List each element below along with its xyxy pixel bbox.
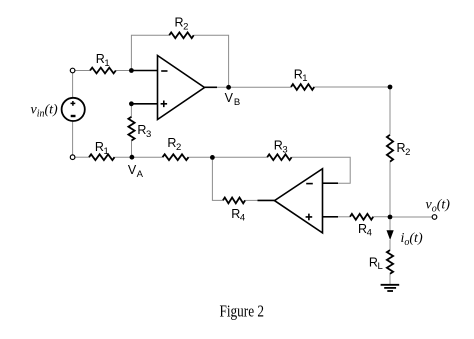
svg-text:2: 2 [183, 21, 188, 32]
wire junction down to R4 branch [212, 157, 223, 200]
svg-text:3: 3 [146, 129, 151, 140]
op-amp U1 output stub [205, 86, 218, 88]
svg-text:Figure 2: Figure 2 [220, 302, 265, 321]
svg-text:2: 2 [405, 147, 410, 158]
op-amp U2 output stub [258, 199, 275, 201]
wire R2 to output node [389, 162, 391, 217]
wire op1 output to VB node [216, 86, 291, 88]
svg-text:V: V [128, 163, 137, 177]
node dot VB [226, 85, 231, 90]
wire right node down to R2 [389, 87, 391, 135]
wire arrow to RL [389, 240, 391, 250]
svg-text:4: 4 [367, 228, 372, 239]
wire VB rail to right node [314, 86, 390, 88]
resistor R2 bottom [163, 154, 189, 160]
wire junction to R3 [212, 156, 267, 158]
resistor R1 top-left [90, 68, 116, 74]
op-amp U1 minus input stub [133, 70, 158, 72]
op-amp U2 plus sign [306, 214, 313, 221]
source plus sign [71, 101, 76, 106]
svg-text:vin(t): vin(t) [31, 103, 59, 120]
svg-text:1: 1 [104, 146, 109, 157]
resistor RL [387, 250, 393, 274]
wire RL to ground [389, 274, 391, 285]
resistor R3 bottom horizontal [267, 154, 291, 160]
resistor R4 left [223, 198, 245, 204]
resistor R3 vertical [128, 117, 134, 141]
terminal vo [432, 215, 437, 220]
resistor R1 bottom-left [89, 154, 115, 160]
terminal top-left [70, 68, 75, 73]
wire output node to vo terminal [390, 216, 432, 218]
svg-text:2: 2 [176, 142, 181, 153]
op-amp U1 triangle [158, 56, 205, 120]
svg-text:3: 3 [282, 144, 287, 155]
op-amp U2 minus input stub [323, 182, 339, 184]
svg-text:1: 1 [302, 73, 307, 84]
resistor R4 right [350, 214, 373, 220]
svg-text:B: B [234, 97, 240, 108]
svg-text:1: 1 [104, 58, 109, 69]
op-amp U1 minus sign [161, 70, 167, 72]
wire R4 to op2 output stub [245, 199, 258, 201]
wire source vertical top [72, 73, 74, 98]
resistor R1 right [291, 84, 314, 90]
svg-text:V: V [225, 91, 234, 105]
node dot plus input [129, 101, 134, 106]
node dot minus input [129, 68, 134, 73]
source minus sign [71, 115, 76, 117]
svg-text:L: L [378, 261, 383, 272]
svg-text:4: 4 [240, 213, 245, 224]
source vin circle [62, 98, 85, 121]
wire plus node down through R3 vertical [130, 104, 132, 157]
node dot junction mid [210, 155, 215, 160]
node dot VA [130, 155, 135, 160]
op-amp U1 plus input stub [133, 103, 158, 105]
wire source vertical bottom [72, 121, 74, 155]
node dot top-right [388, 85, 393, 90]
current arrow io [389, 219, 391, 231]
terminal bottom-left [70, 155, 75, 160]
wire feedback: minus node up, across, down to VB [131, 35, 228, 87]
wire R4b to output node [373, 216, 390, 218]
svg-text:io(t): io(t) [401, 231, 423, 248]
wire top rail: terminal to R1 [75, 70, 90, 72]
svg-text:vo(t): vo(t) [426, 197, 451, 214]
op-amp U1 plus sign [161, 101, 168, 108]
wire R3 right then down to op2 minus [292, 157, 351, 183]
op-amp U2 triangle [275, 169, 323, 233]
node dot output [388, 215, 393, 220]
op-amp U2 plus input stub [323, 216, 339, 218]
wire R1 to VA [115, 156, 132, 158]
ground [381, 285, 400, 291]
wire VA to R2 [132, 156, 163, 158]
svg-text:A: A [137, 169, 144, 180]
wire op2 plus to R4b [337, 216, 350, 218]
wire bottom rail: terminal to R1 [75, 156, 89, 158]
resistor R2 vertical right [387, 135, 393, 162]
wire R2 to junction [189, 156, 213, 158]
wire R1 to minus node [116, 70, 132, 72]
resistor R2 feedback top [169, 32, 194, 38]
op-amp U2 minus sign [306, 183, 313, 185]
